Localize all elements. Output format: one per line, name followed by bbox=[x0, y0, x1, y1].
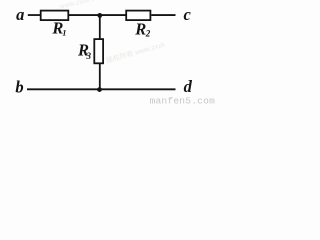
svg-text:3: 3 bbox=[86, 51, 92, 61]
resistor R3 bbox=[94, 39, 103, 63]
svg-text:版权所有 www.zxxk: 版权所有 www.zxxk bbox=[105, 39, 166, 65]
wire b to d bbox=[27, 88, 176, 90]
resistor R2 bbox=[126, 11, 150, 21]
svg-text:2: 2 bbox=[145, 29, 151, 39]
junction node top bbox=[97, 13, 102, 18]
wire R2 to c bbox=[151, 14, 175, 16]
junction node bottom bbox=[97, 87, 102, 92]
svg-text:R: R bbox=[134, 19, 146, 38]
wire R1 to R2 bbox=[68, 14, 126, 16]
svg-text:c: c bbox=[184, 5, 192, 24]
wire a to R1 bbox=[28, 14, 41, 16]
svg-text:b: b bbox=[15, 78, 23, 97]
svg-text:d: d bbox=[184, 77, 193, 96]
svg-text:a: a bbox=[16, 5, 24, 24]
svg-text:1: 1 bbox=[62, 27, 66, 37]
wire R3 to bottom rail bbox=[99, 64, 101, 90]
svg-text:www.zxxk.com: www.zxxk.com bbox=[58, 0, 105, 11]
svg-text:manfen5.com: manfen5.com bbox=[150, 96, 216, 107]
wire junction to R3 bbox=[99, 14, 101, 39]
resistor R1 bbox=[41, 11, 69, 21]
